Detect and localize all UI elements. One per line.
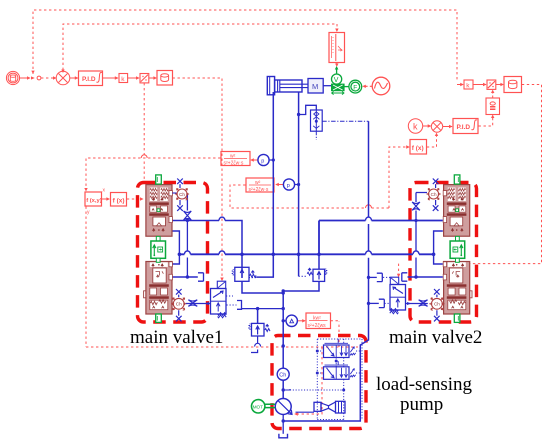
valve1 risers [172,231,180,264]
force signal source (sine) [372,77,390,95]
pipe cylinder port A down [272,92,274,254]
svg-text:w²: w² [230,154,236,160]
motor MOT [252,400,276,413]
swash plate actuator [314,402,321,411]
wire fx to valve1 pilot [127,198,143,200]
wire feedback inner top [63,24,337,70]
valve2 right outlet with arrow [406,303,428,305]
svg-text:M: M [312,82,318,91]
node B check branch [297,113,300,116]
LS transfer block TF3 [306,313,331,329]
green caps and centre block [151,175,166,323]
chamber sensor Ch pump [277,368,289,380]
springs [150,189,157,199]
tank [279,434,288,438]
summer X2 [431,121,442,132]
wire [473,84,486,86]
svg-text:MOT: MOT [253,404,263,409]
svg-text:load-sensing: load-sensing [376,374,473,395]
blue stub valve1 to Ch [172,192,176,194]
bus A left [172,221,243,255]
hydraulic cylinder [275,80,302,92]
wire [128,77,139,79]
svg-text:main valve1: main valve1 [130,327,223,348]
LS tap line [242,308,284,310]
dashed box main valve1 [138,183,208,323]
wire to pilot valve 1 command [173,78,223,279]
pipe cylinder port B down [298,92,300,254]
pump supply line [282,293,284,398]
compensator 1 [235,267,249,281]
svg-text:f (x): f (x) [412,145,424,152]
arrow from V up [336,69,338,75]
flow sensor / check valve [311,110,323,131]
force source F [349,80,362,93]
spring-mass block U5 [486,98,500,115]
svg-text:P.I.D: P.I.D [457,124,471,131]
pump control valve A [324,345,350,358]
pump control valve B [324,367,350,380]
valve2 work line y277 [408,276,443,278]
wire f(x) out to X2 [427,133,437,147]
wire [423,125,431,127]
svg-text:Ch: Ch [279,373,286,379]
lower spool unit [146,262,172,315]
LS compensator valve [257,309,259,324]
fx block left [111,193,127,207]
pilot from check valve to tank line [322,120,368,122]
wire pump swash command [295,347,322,414]
wire V1 bottom arrows [336,63,338,67]
rate limiter 2 [487,80,496,89]
svg-text:f (x,y): f (x,y) [86,198,102,204]
dashed box load-sensing pump [272,336,366,429]
signal source S1 [6,71,19,84]
pressure sensor p1 [258,154,269,165]
pilot operated valve 1 [211,289,227,315]
wire [20,77,30,79]
pressure sensor dp [286,315,297,326]
wire f(x) in [389,147,409,208]
svg-text:w²: w² [255,180,261,186]
converter block (drum icon) [157,71,173,86]
wire [41,77,54,79]
valve2 risers [434,231,443,264]
wire valve spool pilot drop [143,83,145,181]
arrow into TF2 [276,184,284,186]
valve1 orifice riser [186,194,188,277]
svg-text:s²+2ζw·s: s²+2ζw·s [224,160,244,166]
valve2 pilot stubs to tank line [369,276,377,278]
pilot operated valve 2 [390,285,406,311]
pilot dotted network [290,339,362,420]
svg-text:Ch: Ch [179,192,185,197]
chamber icons Ch with red arrows [171,189,189,311]
dashed box main valve2 [410,183,477,323]
small blue crosses [176,179,183,322]
wire TF1 to f(x,y) x-input [86,158,221,191]
transfer fn block TF2 [246,178,274,192]
f(x) block right [410,140,427,155]
node tap A pressure [272,158,275,161]
wire return to valve2 and pilot valve2 [463,85,542,264]
wire [443,126,452,128]
gain k2 [464,80,473,89]
svg-text:F: F [353,85,357,92]
svg-text:Ch: Ch [176,302,182,307]
svg-text:P.I.D: P.I.D [82,76,96,83]
source k circle [408,119,422,133]
svg-text:Ch: Ch [434,302,440,307]
wire [70,77,78,79]
node tap B pressure [297,183,300,186]
svg-text:p: p [287,183,290,189]
svg-text:p: p [261,159,264,165]
velocity sensor V [332,74,342,84]
wire PID2 to U5 [479,115,493,126]
svg-text:Ch: Ch [431,192,437,197]
pipe A below bus to compensator1 pilot [256,254,273,277]
displacement transducer [332,84,344,90]
svg-text:k: k [413,122,418,132]
pressure sensor arrow into TF1 [251,159,258,161]
wire TF2 to f(x) via y208 [230,185,389,208]
svg-text:V: V [334,77,339,84]
svg-text:f (x): f (x) [113,197,125,204]
bus A right [319,221,443,255]
svg-text:s²+2ζws: s²+2ζws [308,323,327,329]
pipe B below bus to compensator2 pilot [298,254,300,276]
upper spool unit [146,185,172,237]
arrow into TF3 [298,320,306,322]
converter 2 (drum icon) [504,77,522,93]
pressure sensor p2 [283,179,294,190]
wire feedback outer top [33,10,457,80]
valve1 left outlet with arrow [186,303,211,305]
wire fxy y-input from LS line [86,207,358,348]
wire [496,84,503,86]
mass M1 [308,79,323,94]
bus B [179,253,433,255]
wire U5 to limiter [492,90,494,98]
fxy block [85,192,102,206]
wire [103,77,119,79]
valve1 work line y277 [172,276,198,278]
svg-text:pump: pump [400,394,443,415]
gain k1 [119,74,128,83]
main valve2 spool assembly (mirror) [426,175,472,323]
valve2 orifice riser [416,193,427,278]
wire into k2 [457,84,463,86]
variable displacement pump [275,399,291,415]
svg-text:kw²: kw² [313,316,321,322]
velocity transfer block V1 (vertical) [329,33,345,63]
PID block U4 [453,119,478,134]
PID block U1 [79,71,103,86]
rate limiter block [140,74,149,83]
wire [149,77,156,79]
main valve1 spool assembly [144,185,173,314]
summer X1 [56,71,70,85]
compensator 2 [313,269,325,281]
node [37,76,41,80]
transfer fn block TF1 [221,152,250,166]
svg-text:s²+2ζw·s: s²+2ζw·s [249,187,269,193]
wire fxy to fx [102,198,109,200]
svg-text:main valve2: main valve2 [389,327,482,348]
tank return line [283,121,368,421]
